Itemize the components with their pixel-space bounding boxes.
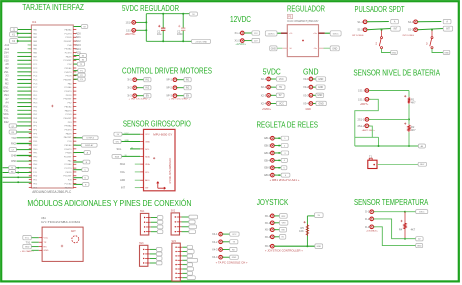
svg-text:+ RB1 2N3-2Y2 A21 +: + RB1 2N3-2Y2 A21 + [270, 179, 301, 182]
svg-text:AD4: AD4 [76, 47, 82, 51]
svg-text:IC1: IC1 [32, 20, 37, 24]
svg-text:X1-1: X1-1 [235, 31, 241, 35]
svg-text:U$1: U$1 [41, 216, 46, 220]
svg-text:X6-5: X6-5 [265, 244, 271, 248]
svg-text:X6-4: X6-4 [265, 235, 271, 239]
svg-text:JOYSTICK: JOYSTICK [257, 197, 289, 207]
svg-text:GND: GND [319, 103, 324, 105]
svg-text:EB-4: EB-4 [264, 158, 270, 162]
svg-text:SV4: SV4 [172, 241, 177, 243]
svg-text:2S1-2: 2S1-2 [357, 124, 364, 128]
svg-text:+ INT DC DRV +: + INT DC DRV + [129, 98, 151, 100]
svg-text:INT: INT [121, 186, 126, 190]
svg-text:D48: D48 [11, 154, 16, 158]
svg-text:PE0/INT: PE0/INT [64, 118, 73, 120]
svg-text:4K7: 4K7 [411, 228, 416, 232]
svg-text:PF1/A1: PF1/A1 [65, 67, 73, 70]
svg-text:D50: D50 [11, 159, 16, 163]
svg-text:X6-3: X6-3 [265, 228, 271, 232]
svg-text:S2-1: S2-1 [408, 20, 414, 24]
svg-text:SV2: SV2 [171, 211, 176, 213]
svg-text:TX1: TX1 [4, 108, 9, 112]
svg-text:3S4: 3S4 [4, 93, 9, 97]
svg-text:SDA: SDA [3, 112, 9, 116]
svg-text:X4-2: X4-2 [212, 240, 218, 244]
svg-text:GND: GND [444, 52, 449, 54]
svg-text:XDA: XDA [145, 163, 150, 166]
svg-text:GND: GND [125, 140, 130, 142]
svg-text:9P-1: 9P-1 [166, 78, 172, 82]
svg-text:A8: A8 [5, 62, 9, 66]
svg-text:+ TA PC CONSOLE CH +: + TA PC CONSOLE CH + [216, 262, 249, 265]
svg-text:D-3: D-3 [365, 225, 370, 229]
svg-text:TX1: TX1 [26, 241, 31, 245]
svg-text:PD3/T0: PD3/T0 [64, 91, 72, 93]
svg-text:RX2: RX2 [11, 142, 17, 146]
svg-text:2S1: 2S1 [4, 70, 9, 74]
svg-text:5V: 5V [279, 95, 282, 97]
svg-text:5VDC: 5VDC [333, 33, 339, 35]
svg-text:X3: X3 [5, 74, 9, 78]
svg-text:X4-3: X4-3 [212, 248, 218, 252]
svg-text:AD2: AD2 [76, 39, 82, 43]
svg-text:5V: 5V [279, 87, 282, 89]
svg-text:EB-5: EB-5 [264, 166, 270, 170]
svg-text:PA4/S: PA4/S [66, 55, 72, 58]
svg-text:9P-2: 9P-2 [166, 86, 172, 90]
svg-text:R3: R3 [11, 171, 13, 173]
svg-text:PC0/A1: PC0/A1 [64, 163, 72, 166]
svg-text:SCL: SCL [4, 116, 10, 120]
svg-text:1N4: 1N4 [4, 51, 9, 55]
svg-text:PG0/T0: PG0/T0 [64, 149, 72, 151]
svg-text:X3-1: X3-1 [303, 77, 309, 81]
svg-text:+Vi: +Vi [289, 33, 293, 35]
svg-text:GND: GND [232, 257, 237, 259]
svg-text:EB-3: EB-3 [264, 151, 270, 155]
svg-text:GND: GND [392, 52, 397, 54]
svg-text:AD5: AD5 [76, 51, 82, 55]
svg-text:PD1/S: PD1/S [65, 37, 72, 39]
svg-text:PC3/INT: PC3/INT [64, 60, 73, 62]
svg-text:PF0/INT: PF0/INT [64, 41, 72, 43]
svg-text:2S1-1: 2S1-1 [357, 117, 364, 121]
svg-text:5VDC REGULADOR: 5VDC REGULADOR [122, 3, 179, 13]
svg-text:SV3: SV3 [139, 243, 144, 245]
svg-text:PC4/A1: PC4/A1 [64, 86, 72, 89]
svg-text:GND: GND [317, 95, 322, 97]
svg-text:D-2: D-2 [365, 217, 370, 221]
svg-text:VCC: VCC [25, 238, 30, 240]
svg-text:INT: INT [446, 29, 450, 31]
svg-text:10K: 10K [299, 229, 304, 233]
svg-text:VCC: VCC [232, 234, 237, 236]
svg-text:PK0/A1: PK0/A1 [64, 48, 72, 51]
svg-text:GND: GND [318, 79, 323, 81]
svg-text:EB-6: EB-6 [264, 173, 270, 177]
svg-text:PH2/INT: PH2/INT [64, 99, 73, 101]
svg-text:PF2/S: PF2/S [66, 95, 72, 97]
svg-text:TARJETA INTERFAZ: TARJETA INTERFAZ [22, 2, 84, 12]
svg-text:A4: A4 [5, 101, 9, 105]
svg-text:GY-TDC2USB4-COM4: GY-TDC2USB4-COM4 [41, 220, 81, 224]
svg-text:PA7/INT: PA7/INT [64, 136, 72, 139]
svg-text:12VDC: 12VDC [230, 14, 251, 24]
svg-text:S1-1: S1-1 [357, 20, 363, 24]
svg-text:M2: M2 [5, 81, 9, 85]
svg-text:SENSOR GIROSCOPIO: SENSOR GIROSCOPIO [123, 118, 191, 128]
svg-text:DISPLAY: DISPLAY [85, 144, 94, 147]
svg-text:9P-3: 9P-3 [166, 94, 172, 98]
svg-text:CONTROL DRIVER MOTORES: CONTROL DRIVER MOTORES [122, 66, 212, 76]
svg-text:12VDC: 12VDC [268, 33, 275, 35]
svg-text:X2-4: X2-4 [261, 101, 267, 105]
svg-text:GY-521 MPU-6050 ACC: GY-521 MPU-6050 ACC [169, 158, 172, 184]
svg-text:PE1/A1: PE1/A1 [64, 144, 72, 147]
svg-text:A12: A12 [4, 43, 9, 47]
svg-text:TX2: TX2 [11, 136, 16, 140]
svg-text:X7: X7 [5, 97, 9, 101]
svg-text:100n: 100n [177, 32, 183, 36]
svg-text:4K7: 4K7 [411, 128, 416, 132]
svg-text:GND: GND [271, 48, 276, 50]
svg-text:SW: SW [281, 230, 284, 232]
svg-text:PC7/T0: PC7/T0 [64, 168, 72, 170]
svg-text:+ JOYSTICK CONTROLLER +: + JOYSTICK CONTROLLER + [265, 251, 304, 253]
svg-text:EB-1: EB-1 [264, 136, 270, 140]
svg-text:SCL: SCL [116, 147, 122, 151]
svg-text:X2-1: X2-1 [261, 77, 267, 81]
svg-text:PA0/S: PA0/S [66, 132, 72, 135]
svg-text:1S1-: 1S1- [126, 28, 132, 32]
svg-text:1S2: 1S2 [4, 54, 9, 58]
svg-text:REGULADOR: REGULADOR [287, 4, 325, 14]
svg-text:X4-4: X4-4 [212, 255, 218, 259]
svg-text:SENSOR TEMPERATURA: SENSOR TEMPERATURA [354, 197, 429, 207]
svg-text:EN2: EN2 [4, 89, 10, 93]
svg-text:D-1: D-1 [365, 210, 370, 214]
svg-text:GND: GND [145, 141, 150, 143]
svg-text:XDA: XDA [120, 162, 126, 166]
svg-text:SENSOR NIVEL DE BATERIA: SENSOR NIVEL DE BATERIA [353, 68, 440, 78]
svg-text:DI SPL4: DI SPL4 [87, 138, 95, 140]
svg-text:GND: GND [303, 66, 319, 76]
svg-text:PL0/INT: PL0/INT [64, 156, 72, 158]
svg-text:PH3/A1: PH3/A1 [64, 125, 72, 128]
svg-text:VCC: VCC [125, 133, 130, 135]
svg-text:X2-2: X2-2 [261, 85, 267, 89]
svg-text:5VDC: 5VDC [419, 212, 425, 214]
svg-text:EN1: EN1 [4, 85, 10, 89]
svg-text:10u: 10u [157, 32, 162, 36]
svg-text:S2-2: S2-2 [408, 28, 414, 32]
svg-text:+BATT+: +BATT+ [360, 103, 369, 106]
svg-text:3I-1: 3I-1 [127, 78, 132, 82]
svg-text:PB1/A1: PB1/A1 [64, 105, 72, 108]
svg-text:1S1-1: 1S1-1 [358, 89, 365, 93]
svg-text:VRY: VRY [282, 223, 287, 225]
svg-text:GND: GND [25, 247, 30, 249]
svg-text:4K7: 4K7 [411, 100, 416, 104]
svg-text:+ SD CARD +: + SD CARD + [20, 250, 34, 253]
svg-text:1S1+: 1S1+ [125, 20, 132, 24]
svg-text:PS: PS [288, 17, 292, 19]
svg-text:SDA: SDA [115, 155, 120, 158]
svg-text:ARDUINO MEGA 2560-PLC: ARDUINO MEGA 2560-PLC [32, 190, 71, 194]
svg-text:R4: R4 [399, 228, 403, 232]
svg-text:PK3/T0: PK3/T0 [65, 130, 73, 132]
svg-text:PC5/S: PC5/S [65, 114, 72, 116]
svg-text:XCL: XCL [120, 170, 126, 174]
svg-text:+BAT 5V+: +BAT 5V+ [125, 33, 136, 36]
svg-text:X6-2: X6-2 [265, 221, 271, 225]
svg-text:PC2/T0: PC2/T0 [64, 33, 72, 35]
svg-text:5VDC: 5VDC [263, 66, 281, 76]
svg-text:VCC: VCC [279, 79, 284, 81]
svg-text:X4-1: X4-1 [212, 232, 218, 236]
svg-text:3I-2: 3I-2 [127, 86, 132, 90]
svg-text:S1-2: S1-2 [357, 28, 363, 32]
svg-text:B2: B2 [5, 66, 9, 70]
svg-text:+5VDC GND: +5VDC GND [195, 41, 207, 43]
svg-text:X1-2: X1-2 [235, 39, 241, 43]
svg-text:RX1: RX1 [4, 105, 10, 109]
svg-text:3I-3: 3I-3 [127, 94, 132, 98]
svg-text:GND: GND [417, 246, 422, 248]
svg-text:EB-2: EB-2 [264, 144, 270, 148]
svg-text:X10: X10 [4, 58, 9, 62]
svg-text:AD1: AD1 [76, 35, 82, 39]
svg-text:PB0/INT: PB0/INT [64, 79, 73, 81]
svg-text:PG1/INT: PG1/INT [63, 176, 72, 178]
svg-text:PULSADOR SPDT: PULSADOR SPDT [355, 4, 405, 14]
svg-text:X3-2: X3-2 [303, 85, 309, 89]
svg-text:INT DOBLE: INT DOBLE [403, 35, 415, 37]
svg-text:D22: D22 [4, 120, 9, 124]
svg-text:PL3/T0: PL3/T0 [65, 53, 73, 55]
svg-text:INT DOBLE: INT DOBLE [352, 35, 364, 37]
svg-text:PA6/T0: PA6/T0 [65, 109, 73, 112]
svg-text:ANT: ANT [71, 230, 76, 233]
svg-text:GND: GND [318, 87, 323, 89]
svg-text:EN: EN [146, 96, 150, 98]
svg-text:VCC: VCC [145, 134, 150, 136]
svg-text:GND: GND [332, 48, 337, 50]
svg-text:GND: GND [306, 108, 312, 111]
svg-text:EN: EN [186, 96, 190, 98]
svg-text:VCC: VCC [44, 238, 49, 240]
svg-text:PK1/S: PK1/S [66, 76, 73, 78]
svg-text:PH1/T0: PH1/T0 [64, 72, 72, 74]
svg-text:X2-3: X2-3 [261, 93, 267, 97]
svg-text:AD0: AD0 [76, 31, 82, 35]
svg-text:VRX: VRX [281, 216, 286, 218]
svg-text:X3-4: X3-4 [303, 101, 309, 105]
svg-text:PL1/A1: PL1/A1 [65, 182, 73, 185]
svg-text:+5VDC+: +5VDC+ [262, 108, 272, 111]
svg-text:PH4/S: PH4/S [65, 153, 72, 155]
svg-text:SDA: SDA [145, 155, 150, 158]
svg-text:M1: M1 [5, 78, 9, 82]
svg-text:RX: RX [44, 247, 48, 249]
svg-text:A13: A13 [4, 47, 9, 51]
svg-text:DC-DC CONVERTER 78_05SR 2A/5V: DC-DC CONVERTER 78_05SR 2A/5V [287, 19, 318, 23]
svg-text:+ INT DC DRV +: + INT DC DRV + [169, 98, 191, 100]
svg-text:X6-1: X6-1 [265, 214, 271, 218]
svg-text:INT: INT [394, 29, 398, 31]
svg-text:GND: GND [317, 246, 322, 248]
svg-text:VCC: VCC [279, 103, 284, 105]
svg-text:1S1-2: 1S1-2 [358, 97, 365, 101]
svg-text:+BATT GND+: +BATT GND+ [362, 129, 376, 132]
svg-text:+DS18B20+: +DS18B20+ [366, 231, 379, 233]
svg-text:MPU-6050 GY: MPU-6050 GY [153, 135, 173, 137]
svg-text:SV1: SV1 [140, 211, 145, 213]
svg-text:PA2/T0: PA2/T0 [65, 186, 73, 189]
svg-text:AD0: AD0 [120, 178, 126, 182]
svg-text:PA3/A1: PA3/A1 [65, 28, 73, 31]
svg-text:GND: GND [44, 250, 49, 252]
svg-text:MÓDULOS ADICIONALES Y PINES DE: MÓDULOS ADICIONALES Y PINES DE CONEXIÓN [27, 198, 191, 208]
svg-text:+12VDC+: +12VDC+ [235, 43, 246, 46]
svg-text:X3-3: X3-3 [303, 93, 309, 97]
svg-text:PE2/S: PE2/S [66, 172, 73, 174]
svg-text:AD3: AD3 [76, 43, 82, 47]
svg-text:REGLETA DE RELES: REGLETA DE RELES [257, 119, 319, 129]
